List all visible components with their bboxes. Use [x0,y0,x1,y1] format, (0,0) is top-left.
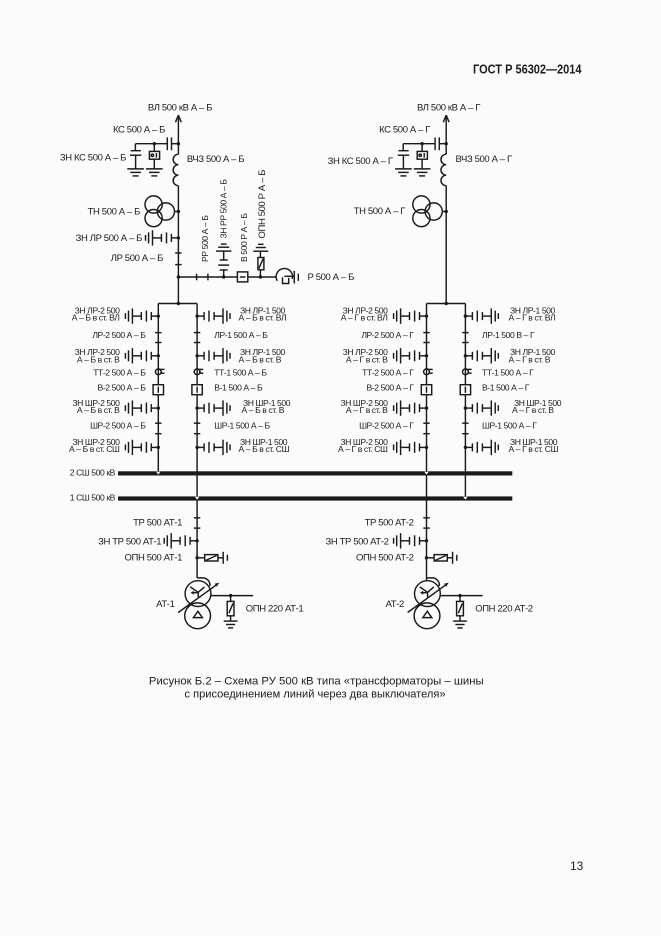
ground [127,169,144,176]
earthing switch ЗН ЛР-2 500 А-Г в ст. ВЛ [394,308,429,323]
svg-text:ОПН 220 АТ-2: ОПН 220 АТ-2 [475,604,533,615]
filter box ЗН КС 500 А-Б [153,144,155,152]
svg-text:ОПН 500 Р А – Б: ОПН 500 Р А – Б [257,170,268,239]
svg-text:ШР-2 500 А – Б: ШР-2 500 А – Б [90,421,146,431]
svg-text:А – Б в ст. ВЛ: А – Б в ст. ВЛ [239,313,287,323]
wire feeder А-Б upper [177,115,179,154]
capacitor КС 500 А-Г [439,143,446,145]
earthing switch ЗН ЛР-1 500 А-Г в ст. ВЛ [464,308,499,323]
svg-text:Р 500 А – Б: Р 500 А – Б [308,272,355,283]
svg-text:А – Г в ст. СШ: А – Г в ст. СШ [338,444,388,454]
svg-text:ЛР-1 500 В – Г: ЛР-1 500 В – Г [482,330,535,340]
transformer ТТ-1 500 А-Б (CT) [194,369,203,375]
transformer ТТ-1 500 А-Г (CT) [463,369,472,375]
svg-text:ОПН 220 АТ-1: ОПН 220 АТ-1 [246,604,304,615]
svg-text:ЗН ТР 500 АТ-2: ЗН ТР 500 АТ-2 [325,537,388,548]
svg-text:КС 500 А – Г: КС 500 А – Г [379,124,430,135]
svg-text:РР 500 А – Б: РР 500 А – Б [200,215,210,262]
svg-text:А – Г в ст. В: А – Г в ст. В [509,354,551,364]
svg-text:ГОСТ Р 56302—2014: ГОСТ Р 56302—2014 [473,62,582,77]
disconnector ТР 500 АТ-1 [194,517,200,519]
node РР branch junction [177,275,180,278]
svg-text:1 СШ 500 кВ: 1 СШ 500 кВ [70,493,116,503]
wire feeder А-Г lower [445,186,447,304]
svg-text:ТТ-2 500 А – Г: ТТ-2 500 А – Г [362,367,414,377]
earthing switch ЗН ЛР-1 500 А-Б в ст. ВЛ [195,308,230,323]
breaker В-2 500 А-Б [153,385,163,395]
earthing switch ЗН ШР-2 500 А-Б в ст. В [125,400,160,415]
disconnector ШР-1 500 А-Б [194,422,200,424]
svg-text:ВЧЗ 500 А – Б: ВЧЗ 500 А – Б [187,154,244,165]
svg-text:ВЧЗ 500 А – Г: ВЧЗ 500 А – Г [456,154,512,165]
earthing switch ЗН ШР-1 500 А-Г в ст. В [464,400,499,415]
arrow line А-Г [443,115,449,122]
svg-text:ВЛ 500 кВ А – Г: ВЛ 500 кВ А – Г [417,102,480,113]
svg-text:ЛР-2 500 А – Г: ЛР-2 500 А – Г [361,330,414,340]
busbar 2 СШ 500 кВ [118,471,512,475]
svg-text:А – Г в ст. ВЛ: А – Г в ст. ВЛ [509,313,556,323]
earthing switch ЗН ЛР 500 А-Б [146,230,181,245]
earthing switch ЗН ТР 500 АТ-2 [394,533,429,548]
transformer ТТ-2 500 А-Б (CT) [155,369,164,375]
svg-text:ВЛ 500 кВ А – Б: ВЛ 500 кВ А – Б [148,102,212,113]
earthing switch ЗН ШР-1 500 А-Б в ст. СШ [195,440,230,455]
svg-text:ТР 500 АТ-1: ТР 500 АТ-1 [133,517,182,528]
svg-text:А – Б в ст. В: А – Б в ст. В [77,354,120,364]
ground [395,169,412,176]
disconnector ЛР 500 А-Б [175,252,181,254]
disconnector ЛР-2 500 А-Б [155,332,161,334]
transformer ТН 500 А-Б (voltage transformer) [145,196,162,213]
svg-text:АТ-1: АТ-1 [156,599,174,610]
svg-text:А – Б в ст. СШ: А – Б в ст. СШ [239,444,290,454]
svg-text:ОПН 500 АТ-1: ОПН 500 АТ-1 [125,553,183,564]
svg-text:А – Г в ст. ВЛ: А – Г в ст. ВЛ [341,313,388,323]
breaker В-2 500 А-Г [421,385,431,395]
svg-text:А – Г в ст. В: А – Г в ст. В [346,354,388,364]
svg-text:ЗН ЛР 500 А – Б: ЗН ЛР 500 А – Б [76,233,143,244]
breaker В-1 500 А-Г [460,385,470,395]
wire column ЛР-1 А-Г [464,304,466,497]
svg-text:ТТ-2 500 А – Б: ТТ-2 500 А – Б [93,367,146,377]
wire splitter А-Г [427,303,466,305]
ground [414,169,431,176]
wire РР branch [178,276,276,278]
node ЗН КС junction [420,142,423,145]
svg-text:ЛР-1 500 А – Б: ЛР-1 500 А – Б [214,330,268,340]
svg-text:А – Г в ст. СШ: А – Г в ст. СШ [509,444,559,454]
wire column ЛР-2 А-Г (continues to АТ-2) [426,304,428,581]
earthing switch ЗН РР 500 А-Б [216,244,231,279]
disconnector ЛР-1 500 А-Б [194,332,200,334]
surge arrester ОПН 220 АТ-1 [224,594,238,628]
earthing switch ЗН ЛР-2 500 А-Г в ст. В [394,348,429,363]
svg-text:А – Б в ст. В: А – Б в ст. В [77,405,120,415]
earthing switch ЗН ТР 500 АТ-1 [164,533,199,548]
disconnector РР 500 А-Б [196,274,198,281]
surge arrester ОПН 500 АТ-2 [425,552,457,564]
svg-text:ЗН КС 500 А – Б: ЗН КС 500 А – Б [60,153,126,164]
svg-text:В-1 500 А – Б: В-1 500 А – Б [214,382,263,392]
svg-text:Рисунок Б.2 – Схема РУ 500 кВ: Рисунок Б.2 – Схема РУ 500 кВ типа «тран… [149,675,484,687]
node ЗН КС junction [153,142,156,145]
disconnector ЛР-1 500 В-Г [462,332,468,334]
svg-text:А – Г в ст. В: А – Г в ст. В [512,405,554,415]
earthing switch ЗН ШР-2 500 А-Г в ст. В [394,400,429,415]
disconnector ШР-2 500 А-Г [423,422,429,424]
reactor Р 500 А-Б [276,269,292,281]
svg-text:ШР-2 500 А – Г: ШР-2 500 А – Г [359,421,414,431]
breaker В-1 500 А-Б [192,385,202,395]
surge arrester ОПН 500 Р А-Б [259,275,262,278]
wire column ЛР-1 [196,304,198,497]
svg-text:ТТ-1 500 А – Б: ТТ-1 500 А – Б [214,367,267,377]
svg-text:А – Б в ст. СШ: А – Б в ст. СШ [69,444,120,454]
svg-text:А – Б в ст. В: А – Б в ст. В [242,405,285,415]
node КС junction [445,142,448,145]
transformer ТТ-2 500 А-Г (CT) [424,369,433,375]
svg-text:ШР-1 500 А – Г: ШР-1 500 А – Г [482,421,537,431]
svg-text:В-1 500 А – Г: В-1 500 А – Г [482,382,530,392]
wire 220 кВ side АТ-1 [211,595,253,597]
earthing switch ЗН ШР-1 500 А-Б в ст. В [195,400,230,415]
svg-text:А – Б в ст. ВЛ: А – Б в ст. ВЛ [72,313,120,323]
capacitor ЗН КС 500 А-Б left leg [134,144,136,151]
svg-text:ТТ-1 500 А – Г: ТТ-1 500 А – Г [482,367,534,377]
svg-text:ЛР-2 500 А – Б: ЛР-2 500 А – Б [92,330,146,340]
node arrow col ЛР-1 А-Б on 1СШ [195,497,199,500]
busbar 1 СШ 500 кВ [118,496,512,500]
wire АТ-1 drop [196,501,198,578]
svg-text:с присоединением линий через д: с присоединением линий через два выключа… [185,689,446,701]
svg-text:ТР 500 АТ-2: ТР 500 АТ-2 [365,517,414,528]
breaker В 500 Р А-Б [237,272,247,282]
transformer ТН 500 А-Г (voltage transformer) [413,196,430,213]
svg-text:2 СШ 500 кВ: 2 СШ 500 кВ [70,467,116,477]
wire column ЛР-2 [157,304,159,472]
disconnector ТР 500 АТ-2 [423,517,429,519]
filter box ЗН КС 500 А-Г [421,144,423,152]
svg-text:ЗН ТР 500 АТ-1: ЗН ТР 500 АТ-1 [98,537,161,548]
disconnector ШР-2 500 А-Б [155,422,161,424]
surge arrester ОПН 220 АТ-2 [453,594,467,628]
wire 220 кВ side АТ-2 [440,595,482,597]
svg-text:ЗН РР 500 А – Б: ЗН РР 500 А – Б [219,179,229,239]
svg-text:А – Г в ст. В: А – Г в ст. В [346,405,388,415]
earthing switch ЗН ШР-2 500 А-Б в ст. СШ [125,440,160,455]
svg-text:В-2 500 А – Г: В-2 500 А – Г [367,383,415,393]
earthing switch ЗН ЛР-1 500 А-Г в ст. В [464,348,499,363]
earthing switch ЗН ЛР-2 500 А-Б в ст. ВЛ [125,308,160,323]
wire splitter А-Б [158,303,197,305]
node КС junction [177,142,180,145]
earthing switch ЗН ШР-1 500 А-Г в ст. СШ [464,440,499,455]
node arrow col ЛР-1 А-Г on 1СШ [463,497,467,500]
ground [146,169,163,176]
surge arrester ОПН 500 АТ-1 [195,552,227,564]
wire feeder А-Б lower [177,186,179,304]
svg-text:А – Б в ст. В: А – Б в ст. В [239,354,282,364]
svg-text:В-2 500 А – Б: В-2 500 А – Б [98,383,147,393]
node arrow col ЛР-2 А-Г on 2СШ [424,472,428,475]
svg-text:ОПН 500 АТ-2: ОПН 500 АТ-2 [356,553,414,564]
arrow line А-Б [176,115,182,122]
transformer АТ-2 autotransformer [427,578,440,586]
transformer АТ-1 autotransformer [197,578,210,586]
node arrow col ЛР-2 А-Б on 2СШ [156,472,160,475]
reactor ВЧЗ 500 А-Б (HF choke) [173,154,178,186]
disconnector ЛР-2 500 А-Г [423,332,429,334]
svg-text:АТ-2: АТ-2 [386,599,404,610]
reactor ВЧЗ 500 А-Г (HF choke) [441,154,446,186]
earthing switch ЗН ШР-2 500 А-Г в ст. СШ [394,440,429,455]
capacitor ЗН КС 500 А-Г left leg [402,144,404,151]
svg-text:ЗН КС 500 А – Г: ЗН КС 500 А – Г [328,156,393,167]
svg-text:ТН 500 А – Б: ТН 500 А – Б [88,207,141,218]
svg-text:В 500 Р А – Б: В 500 Р А – Б [239,213,249,262]
wire feeder А-Г upper [445,115,447,154]
svg-text:КС 500 А – Б: КС 500 А – Б [113,124,165,135]
earthing switch ЗН ЛР-1 500 А-Б в ст. В [195,348,230,363]
capacitor КС 500 А-Б [172,143,179,145]
disconnector ШР-1 500 А-Г [462,422,468,424]
svg-text:ШР-1 500 А – Б: ШР-1 500 А – Б [214,421,270,431]
svg-text:13: 13 [570,859,584,873]
earthing switch ЗН ЛР-2 500 А-Б в ст. В [125,348,160,363]
svg-text:ТН 500 А – Г: ТН 500 А – Г [354,206,406,217]
svg-text:ЛР 500 А – Б: ЛР 500 А – Б [111,253,163,264]
